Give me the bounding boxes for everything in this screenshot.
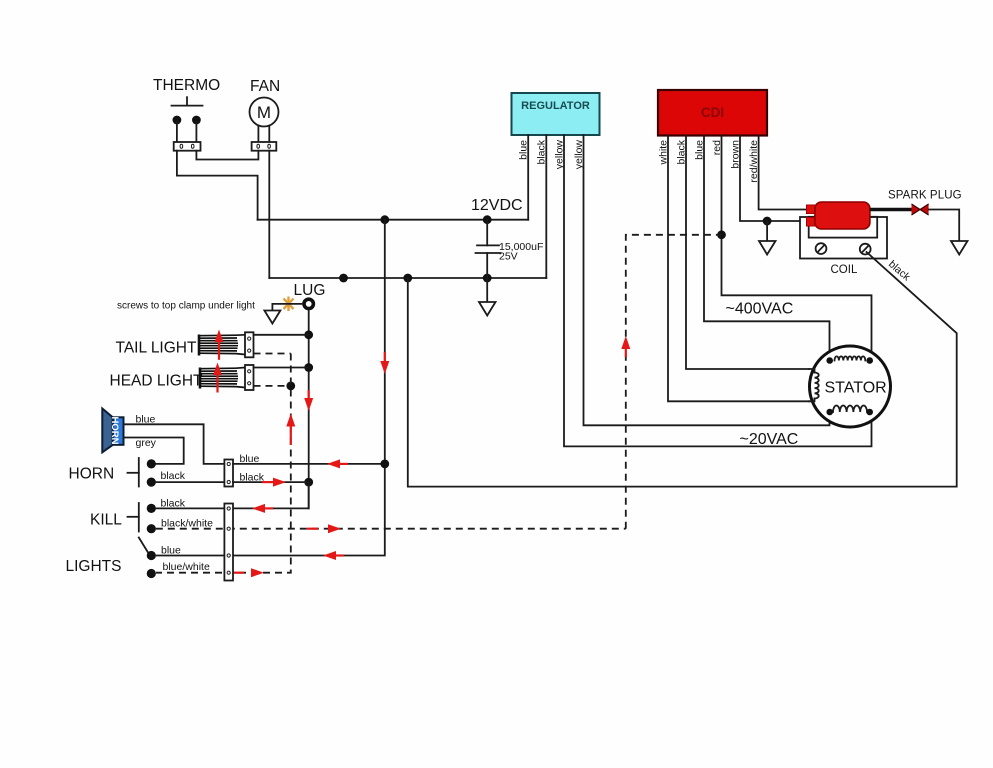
svg-text:blue: blue (518, 140, 530, 160)
ground under brown wire (759, 221, 776, 255)
svg-text:CDI: CDI (701, 105, 724, 120)
wire 12VDC bus (258, 219, 529, 221)
svg-text:screws to top clamp under ligh: screws to top clamp under light (117, 301, 255, 312)
connector J4 head light (245, 365, 254, 390)
svg-text:HORN: HORN (109, 417, 120, 445)
wire kill black/white dashed to CDI red (626, 235, 722, 529)
wire kill black/white dashed (156, 528, 626, 530)
wire ground bus (269, 277, 546, 279)
wire horn black to connector (156, 481, 225, 483)
svg-text:SPARK PLUG: SPARK PLUG (888, 190, 962, 202)
svg-text:HEAD LIGHT: HEAD LIGHT (110, 373, 204, 390)
wire CDI red to stator top-right (722, 136, 872, 361)
svg-text:brown: brown (729, 140, 741, 169)
wire tail light to lug vertical (254, 334, 309, 336)
ground under capacitor (479, 278, 496, 316)
arrow up through head bulb (213, 363, 222, 393)
svg-text:white: white (657, 140, 669, 166)
svg-text:~400VAC: ~400VAC (726, 301, 794, 318)
wire thermo left pin to 12VDC bus (177, 151, 258, 220)
lug ring terminal (304, 299, 313, 308)
node CDI red / kill dashed junction (717, 230, 726, 239)
node head light junction (304, 363, 313, 372)
wire horn blue feed (233, 463, 385, 465)
wire kill black to connector (156, 507, 225, 509)
horn switch SW2 (128, 458, 156, 487)
ignition coil T1 (807, 202, 870, 229)
connector J6 kill and lights (224, 504, 233, 581)
svg-text:STATOR: STATOR (825, 380, 887, 397)
coil screw right (860, 244, 871, 255)
node ground bus B (403, 274, 412, 283)
svg-text:blue/white: blue/white (163, 561, 210, 573)
regulator U1 (512, 93, 600, 135)
svg-text:black: black (675, 139, 687, 164)
svg-text:LUG: LUG (294, 282, 326, 299)
wire lug to ground (272, 304, 302, 311)
svg-text:12VDC: 12VDC (471, 197, 523, 214)
wire spark plug to ground (929, 210, 960, 242)
svg-text:black/white: black/white (161, 518, 213, 530)
head light bulb (200, 368, 245, 389)
svg-text:THERMO: THERMO (153, 77, 220, 94)
node dashed head light junction (286, 382, 295, 391)
node 12VDC bus / lights feed (380, 215, 389, 224)
svg-text:black: black (161, 470, 186, 482)
arrow down on lug vertical (304, 390, 313, 411)
svg-text:TAIL LIGHT: TAIL LIGHT (116, 340, 197, 357)
thermo terminal dot left (173, 116, 182, 125)
arrow up on dashed kill wire (621, 336, 630, 357)
arrow left on kill black feed (252, 504, 273, 513)
horn speaker icon (102, 409, 123, 453)
arrow up through tail bulb (215, 330, 224, 360)
stator left winding (809, 369, 819, 401)
svg-text:25V: 25V (499, 251, 518, 263)
wire head light dashed return (254, 385, 291, 387)
node tail light junction (304, 330, 313, 339)
wire lights blue feed (156, 220, 385, 556)
connector J1 thermo (174, 142, 201, 151)
svg-text:KILL: KILL (90, 512, 122, 529)
ground right of spark plug (951, 241, 968, 255)
svg-text:blue: blue (693, 140, 705, 160)
tail light bulb (199, 335, 245, 356)
node ground bus capacitor bottom (483, 274, 492, 283)
connector J3 tail light (245, 332, 254, 357)
arrow left on lights blue (323, 551, 344, 560)
wire regulator yellow 1 to stator bottom-right (564, 135, 872, 446)
node ground bus A (339, 274, 348, 283)
wire head light to lug vertical (254, 367, 309, 369)
svg-text:red/white: red/white (748, 140, 760, 183)
svg-text:REGULATOR: REGULATOR (521, 100, 590, 112)
arrow up on dashed lights vertical (286, 414, 295, 446)
arrow right on kill black/white (307, 524, 341, 533)
wire horn black feed (233, 481, 309, 483)
wire lug main vertical (308, 309, 310, 509)
svg-text:black: black (536, 139, 548, 164)
node lights blue / horn blue junction (380, 460, 389, 469)
stator bottom winding (826, 405, 873, 415)
coil bracket (800, 217, 887, 259)
svg-text:FAN: FAN (250, 78, 280, 95)
arrow right on horn black feed (262, 478, 286, 487)
wire CDI black to stator left coil top (686, 136, 809, 370)
spark plug symbol (912, 204, 929, 216)
fan motor M1 (250, 98, 279, 127)
stator housing circle (810, 346, 891, 427)
wire CDI white to stator left coil bottom (668, 136, 809, 402)
arrow left on horn blue feed (327, 459, 348, 468)
svg-text:red: red (711, 140, 723, 155)
wire horn blue (124, 424, 225, 464)
node horn black junction (304, 478, 313, 487)
wire fan right pin to ground bus (268, 151, 270, 278)
arrow down on lights blue vertical (380, 352, 389, 374)
lights switch SW4 (139, 538, 156, 579)
wire thermo right pin to fan left pin (196, 151, 258, 160)
arrow right on lights blue/white (233, 568, 264, 577)
wire tail light dashed return (254, 353, 291, 355)
node 12VDC capacitor top (483, 215, 492, 224)
wire fan pins to connector (258, 126, 269, 142)
ground under lug wire (264, 311, 280, 324)
wire dashed lights return vertical (156, 354, 291, 573)
svg-text:yellow: yellow (573, 140, 585, 170)
wire thermo pins to connector (177, 122, 197, 142)
wire spark plug lead thick (870, 208, 912, 211)
wire CDI blue to stator top-left (704, 136, 830, 361)
connector J5 horn (224, 460, 233, 487)
thermo terminal dot right (192, 116, 201, 125)
wire CDI red/white to coil top tab (759, 136, 809, 210)
wire regulator yellow 2 to stator bottom-left (584, 135, 830, 425)
node brown ground junction (763, 217, 772, 226)
kill switch SW3 (128, 503, 156, 533)
svg-text:~20VAC: ~20VAC (740, 431, 799, 448)
svg-text:LIGHTS: LIGHTS (66, 558, 122, 575)
orange mark X (284, 297, 294, 312)
thermo switch SW1 (172, 97, 203, 105)
wire regulator black (545, 135, 547, 278)
stator top winding (826, 356, 873, 363)
svg-text:grey: grey (136, 437, 157, 449)
CDI box U2 (658, 90, 767, 136)
svg-text:COIL: COIL (831, 264, 858, 276)
wire CDI brown to coil low tab (740, 136, 809, 222)
wire horn grey (124, 438, 184, 464)
wire regulator blue (527, 135, 529, 220)
capacitor C1 15,000uF 25V (476, 220, 501, 278)
svg-text:M: M (257, 103, 271, 122)
svg-text:HORN: HORN (69, 466, 115, 483)
coil screw left (816, 243, 827, 254)
wire kill black feed to horn node (233, 482, 309, 508)
svg-text:yellow: yellow (553, 140, 565, 170)
connector J2 fan (252, 142, 277, 151)
wire black from coil screw to ground bus (408, 252, 957, 487)
